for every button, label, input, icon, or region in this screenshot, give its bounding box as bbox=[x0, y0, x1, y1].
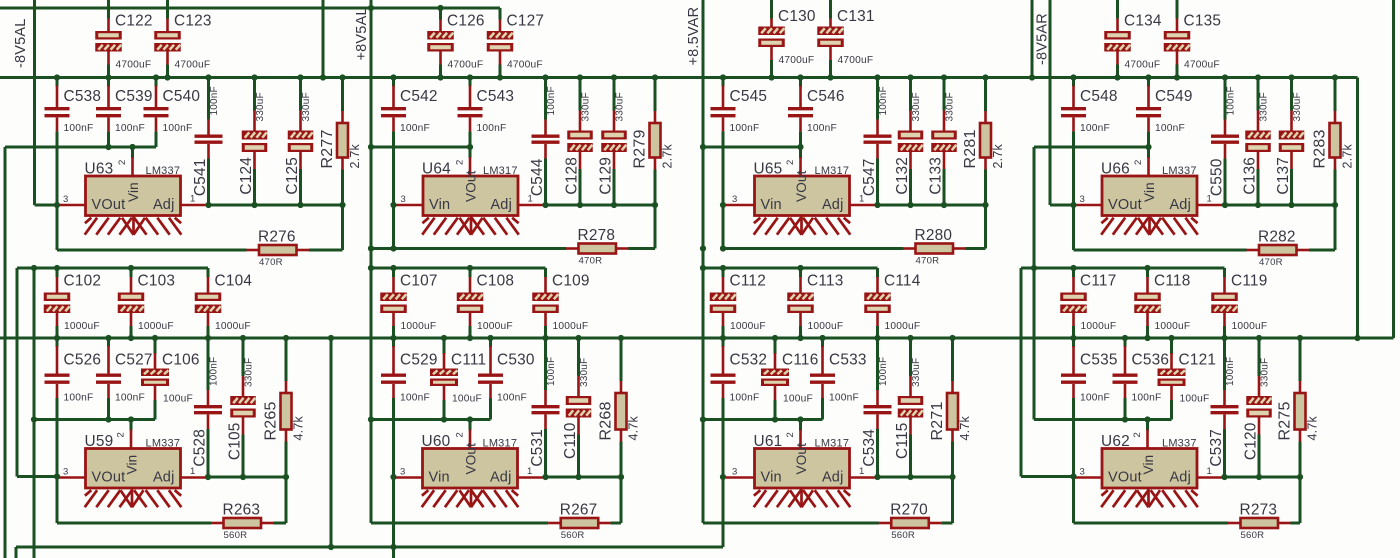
svg-text:C538: C538 bbox=[64, 88, 102, 105]
capacitor C541 bbox=[207, 79, 210, 120]
junction at (34,268) bbox=[31, 265, 37, 271]
svg-text:C120: C120 bbox=[1243, 423, 1260, 461]
svg-text:R282: R282 bbox=[1258, 229, 1296, 246]
svg-text:1: 1 bbox=[528, 194, 533, 205]
svg-text:100nF: 100nF bbox=[400, 393, 430, 404]
R270 right wire bbox=[941, 522, 952, 525]
mid rail (block2 bottom) bbox=[371, 267, 546, 270]
svg-text:100uF: 100uF bbox=[783, 394, 813, 405]
svg-text:U66: U66 bbox=[1101, 161, 1130, 178]
svg-text:3: 3 bbox=[63, 194, 68, 205]
junction at (1032,77.5) bbox=[1029, 74, 1035, 80]
VOut feed left column (block4) bbox=[1020, 268, 1023, 477]
svg-text:C540: C540 bbox=[163, 88, 201, 105]
pin 2 wire (U65) bbox=[799, 147, 802, 158]
svg-text:4.7k: 4.7k bbox=[1306, 416, 1320, 441]
ground symbol under U60 bbox=[422, 490, 428, 496]
resistor R278 bbox=[566, 247, 579, 250]
junction at (444,338) bbox=[441, 335, 447, 341]
svg-text:C132: C132 bbox=[894, 157, 911, 195]
junction at (910.5,477) bbox=[907, 474, 913, 480]
R267 riser to Adj bbox=[620, 477, 623, 523]
junction at (545.5,77.5) bbox=[542, 74, 548, 80]
junction at (775,419.5) bbox=[772, 416, 778, 422]
svg-text:U59: U59 bbox=[85, 433, 114, 450]
capacitor C108 bbox=[469, 268, 472, 277]
junction at (985.5,205) bbox=[982, 202, 988, 208]
svg-text:VOut: VOut bbox=[92, 197, 126, 213]
ground symbol under U64 bbox=[422, 218, 428, 224]
svg-text:C113: C113 bbox=[807, 273, 843, 290]
svg-text:1: 1 bbox=[859, 194, 864, 205]
junction at (371,248.5) bbox=[368, 245, 374, 251]
svg-text:C527: C527 bbox=[115, 352, 153, 369]
svg-text:C535: C535 bbox=[1080, 352, 1118, 369]
junction at (1073.5,205) bbox=[1070, 202, 1076, 208]
svg-text:C130: C130 bbox=[778, 8, 816, 25]
junction at (131,268) bbox=[128, 265, 134, 271]
junction at (342.5,205) bbox=[339, 202, 345, 208]
svg-text:4700uF: 4700uF bbox=[838, 55, 874, 66]
right edge vertical bbox=[1392, 0, 1395, 338]
svg-text:C104: C104 bbox=[215, 273, 253, 290]
svg-text:4700uF: 4700uF bbox=[1125, 60, 1161, 71]
svg-text:2: 2 bbox=[116, 432, 127, 437]
svg-text:3: 3 bbox=[63, 467, 68, 478]
capacitor C549 bbox=[1147, 79, 1150, 87]
svg-text:3: 3 bbox=[732, 467, 737, 478]
mid rail (block1 bottom) bbox=[17, 267, 208, 270]
GND bus link (left) bbox=[330, 338, 333, 547]
svg-text:330uF: 330uF bbox=[301, 92, 312, 121]
svg-text:C550: C550 bbox=[1209, 159, 1226, 197]
svg-text:C549: C549 bbox=[1155, 88, 1193, 105]
junction at (723,248.5) bbox=[720, 245, 726, 251]
junction at (470,77.5) bbox=[467, 74, 473, 80]
Adj rail (block4 bottom) bbox=[1225, 476, 1301, 479]
svg-text:2.7k: 2.7k bbox=[348, 144, 362, 169]
svg-text:Adj: Adj bbox=[1169, 470, 1191, 486]
svg-text:-8V5AL: -8V5AL bbox=[13, 18, 29, 68]
svg-text:VOut: VOut bbox=[794, 443, 809, 475]
capacitor C545 bbox=[722, 79, 725, 87]
voltage regulator U63 LM337 bbox=[86, 176, 181, 216]
svg-text:U65: U65 bbox=[754, 161, 783, 178]
voltage regulator U62 LM337 bbox=[1102, 449, 1197, 489]
svg-text:100nF: 100nF bbox=[1226, 86, 1237, 115]
svg-text:C126: C126 bbox=[447, 13, 485, 30]
junction at (300.5,205) bbox=[297, 202, 303, 208]
junction at (771.5,77.5) bbox=[768, 74, 774, 80]
svg-text:100nF: 100nF bbox=[807, 123, 837, 134]
mid rail (block3 bottom) bbox=[703, 267, 878, 270]
svg-text:C122: C122 bbox=[115, 13, 153, 30]
capacitor C125 bbox=[299, 79, 302, 111]
svg-text:C129: C129 bbox=[598, 157, 615, 195]
junction at (1148.5,147) bbox=[1145, 144, 1151, 150]
svg-text:VOut: VOut bbox=[464, 443, 479, 475]
capacitor C527 bbox=[107, 339, 110, 347]
junction at (470,419.5) bbox=[467, 416, 473, 422]
resistor R271 bbox=[951, 339, 954, 381]
svg-text:560R: 560R bbox=[224, 530, 248, 541]
R267 left wire bbox=[371, 522, 548, 525]
capacitor C116 bbox=[774, 339, 777, 354]
svg-text:C109: C109 bbox=[552, 273, 590, 290]
capacitor C109 bbox=[544, 268, 547, 277]
junction at (342.5,77.5) bbox=[339, 74, 345, 80]
svg-text:C131: C131 bbox=[837, 8, 875, 25]
svg-text:470R: 470R bbox=[579, 256, 603, 267]
junction at (775,338) bbox=[772, 335, 778, 341]
wire C542 lower lead bbox=[392, 117, 395, 131]
VOut net vertical (block4) bbox=[1049, 0, 1052, 205]
capacitor C106 bbox=[154, 339, 157, 354]
junction at (470,147) bbox=[467, 144, 473, 150]
capacitor C543 bbox=[469, 79, 472, 87]
svg-text:U60: U60 bbox=[422, 433, 451, 450]
pin 2 wire (U63) bbox=[131, 147, 134, 158]
+8V5AL rail (block2) bbox=[370, 0, 373, 523]
wire C526 lower lead bbox=[56, 384, 59, 398]
svg-text:C121: C121 bbox=[1179, 352, 1217, 369]
svg-text:C114: C114 bbox=[884, 273, 921, 290]
Adj rail (block3 bottom) bbox=[878, 476, 953, 479]
VOut feed elbow bbox=[17, 475, 57, 478]
junction at (1125,338) bbox=[1122, 335, 1128, 341]
svg-text:100nF: 100nF bbox=[1080, 123, 1110, 134]
junction at (910.5,77.5) bbox=[907, 74, 913, 80]
junction at (1147.5,338) bbox=[1144, 335, 1150, 341]
junction at (1073.5,338) bbox=[1070, 335, 1076, 341]
junction at (393.5,477) bbox=[390, 474, 396, 480]
svg-text:VOut: VOut bbox=[464, 170, 479, 202]
svg-text:470R: 470R bbox=[259, 257, 283, 268]
svg-text:100nF: 100nF bbox=[115, 123, 145, 134]
svg-text:Vin: Vin bbox=[125, 455, 140, 475]
svg-text:100uF: 100uF bbox=[163, 394, 193, 405]
junction at (1259,477) bbox=[1256, 474, 1262, 480]
svg-text:C530: C530 bbox=[497, 352, 535, 369]
svg-text:2: 2 bbox=[117, 160, 128, 165]
capacitor C546 bbox=[799, 79, 802, 87]
svg-text:Adj: Adj bbox=[822, 197, 844, 213]
svg-text:4700uF: 4700uF bbox=[116, 60, 152, 71]
junction at (545.5,338) bbox=[542, 335, 548, 341]
R280 riser to Adj bbox=[984, 205, 987, 249]
svg-text:1000uF: 1000uF bbox=[215, 321, 251, 332]
junction at (331,547) bbox=[328, 544, 334, 550]
junction at (1259,338) bbox=[1256, 335, 1262, 341]
svg-text:100nF: 100nF bbox=[1080, 393, 1110, 404]
raw feed column (block4 bottom) bbox=[1033, 268, 1036, 420]
junction at (500,77.5) bbox=[497, 74, 503, 80]
svg-text:C125: C125 bbox=[284, 157, 301, 195]
junction at (1117.5,77.5) bbox=[1114, 74, 1120, 80]
svg-text:R283: R283 bbox=[1312, 129, 1329, 168]
svg-text:330uF: 330uF bbox=[255, 92, 266, 121]
svg-text:470R: 470R bbox=[1259, 257, 1283, 268]
svg-text:100nF: 100nF bbox=[1155, 123, 1185, 134]
junction at (34,419.5) bbox=[31, 416, 37, 422]
junction at (208,477) bbox=[205, 474, 211, 480]
resistor R280 bbox=[903, 247, 916, 250]
junction at (1147.5,419.5) bbox=[1144, 416, 1150, 422]
pin 2 wire (U66) bbox=[1147, 147, 1150, 158]
junction at (877.5,205) bbox=[874, 202, 880, 208]
capacitor C126 bbox=[439, 8, 442, 20]
capacitor C128 bbox=[579, 79, 582, 111]
junction at (108.5,419.5) bbox=[105, 416, 111, 422]
svg-text:330uF: 330uF bbox=[615, 92, 626, 121]
junction at (393.5,248.5) bbox=[390, 245, 396, 251]
resistor R265 bbox=[285, 339, 288, 381]
VOut line (block3 bottom) bbox=[703, 418, 823, 421]
svg-text:2: 2 bbox=[785, 160, 796, 165]
capacitor C540 bbox=[155, 79, 158, 87]
svg-text:100nF: 100nF bbox=[400, 123, 430, 134]
svg-text:C544: C544 bbox=[529, 158, 546, 196]
svg-text:C110: C110 bbox=[562, 423, 579, 459]
top +8V5AL feeder wire bbox=[0, 7, 500, 10]
bus1 to bus2 link (right) bbox=[1356, 78, 1359, 339]
bottom bus left drop bbox=[15, 547, 18, 558]
junction at (371,268) bbox=[368, 265, 374, 271]
svg-text:1: 1 bbox=[859, 466, 864, 477]
svg-text:100nF: 100nF bbox=[730, 123, 760, 134]
capacitor C535 bbox=[1072, 339, 1075, 347]
capacitor C538 bbox=[56, 79, 59, 87]
svg-text:C127: C127 bbox=[507, 13, 545, 30]
junction at (371,147) bbox=[368, 144, 374, 150]
capacitor C134 bbox=[1116, 0, 1119, 19]
R280 right wire bbox=[965, 247, 985, 250]
wire C529 lower lead bbox=[392, 384, 395, 398]
ground symbol under U62 bbox=[1101, 490, 1107, 496]
voltage regulator U64 LM317 bbox=[423, 176, 518, 216]
svg-text:LM337: LM337 bbox=[146, 165, 181, 177]
capacitor C132 bbox=[909, 79, 912, 111]
svg-text:Vin: Vin bbox=[1141, 455, 1156, 475]
resistor R268 bbox=[620, 339, 623, 381]
svg-text:4700uF: 4700uF bbox=[175, 60, 211, 71]
junction at (108.5,147) bbox=[105, 144, 111, 150]
svg-text:C547: C547 bbox=[861, 159, 878, 197]
capacitor C533 bbox=[821, 339, 824, 347]
svg-text:1: 1 bbox=[1207, 466, 1212, 477]
R276 left wire bbox=[57, 249, 247, 252]
svg-text:Adj: Adj bbox=[490, 470, 512, 486]
svg-text:LM337: LM337 bbox=[1162, 165, 1197, 177]
svg-text:C545: C545 bbox=[730, 88, 768, 105]
junction at (1073.5,476.5) bbox=[1070, 473, 1076, 479]
svg-text:C118: C118 bbox=[1154, 273, 1190, 290]
junction at (57,205) bbox=[54, 202, 60, 208]
capacitor C122 bbox=[107, 0, 110, 19]
C545 column to R280 row bbox=[722, 205, 725, 249]
svg-text:4700uF: 4700uF bbox=[448, 60, 484, 71]
svg-text:1000uF: 1000uF bbox=[1081, 321, 1117, 332]
svg-text:4.7k: 4.7k bbox=[627, 416, 641, 441]
svg-text:100nF: 100nF bbox=[497, 393, 527, 404]
svg-text:100nF: 100nF bbox=[163, 123, 193, 134]
capacitor C105 bbox=[242, 339, 245, 376]
resistor R273 bbox=[1228, 522, 1241, 525]
svg-text:2.7k: 2.7k bbox=[991, 144, 1005, 169]
junction at (545.5,477) bbox=[542, 474, 548, 480]
svg-text:C135: C135 bbox=[1184, 13, 1222, 30]
junction at (167.5,77.5) bbox=[164, 74, 170, 80]
svg-text:100uF: 100uF bbox=[1180, 394, 1210, 405]
voltage regulator U65 LM317 bbox=[755, 176, 850, 216]
svg-text:C111: C111 bbox=[451, 352, 486, 369]
junction at (300.5,77.5) bbox=[297, 74, 303, 80]
svg-text:560R: 560R bbox=[891, 530, 915, 541]
ground symbol under U61 bbox=[754, 490, 760, 496]
svg-text:2: 2 bbox=[785, 432, 796, 437]
junction at (108.5,338) bbox=[105, 335, 111, 341]
Vin line (block1 bottom) bbox=[34, 418, 155, 421]
svg-text:100nF: 100nF bbox=[546, 357, 557, 386]
resistor R267 bbox=[548, 522, 561, 525]
pin 2 wire (U62) bbox=[1146, 420, 1149, 431]
svg-text:R277: R277 bbox=[319, 129, 336, 168]
junction at (1225,205) bbox=[1222, 202, 1228, 208]
svg-text:1000uF: 1000uF bbox=[138, 321, 174, 332]
svg-text:4.7k: 4.7k bbox=[292, 416, 306, 441]
junction at (131,419.5) bbox=[128, 416, 134, 422]
junction at (952.5,338) bbox=[949, 335, 955, 341]
svg-text:R279: R279 bbox=[632, 129, 649, 168]
svg-text:C546: C546 bbox=[807, 88, 845, 105]
capacitor C129 bbox=[613, 79, 616, 111]
capacitor C110 bbox=[577, 339, 580, 376]
junction at (131,338) bbox=[128, 335, 134, 341]
junction at (910.5,338) bbox=[907, 335, 913, 341]
junction at (1291.5,77.5) bbox=[1288, 74, 1294, 80]
svg-text:4700uF: 4700uF bbox=[507, 60, 543, 71]
svg-text:U61: U61 bbox=[754, 433, 783, 450]
svg-text:C136: C136 bbox=[1242, 157, 1259, 195]
capacitor C135 bbox=[1176, 0, 1179, 19]
VOut drop to R263 bbox=[56, 477, 59, 524]
R267 right wire bbox=[611, 522, 621, 525]
svg-text:R281: R281 bbox=[962, 129, 979, 168]
junction at (877.5,338) bbox=[874, 335, 880, 341]
capacitor C544 bbox=[544, 79, 547, 120]
VOut feed elbow (block4) bbox=[1021, 475, 1074, 478]
pin 2 wire (U60) bbox=[469, 420, 472, 431]
junction at (286,338) bbox=[283, 335, 289, 341]
wire C533 lower lead bbox=[821, 384, 824, 398]
svg-text:C102: C102 bbox=[64, 273, 102, 290]
svg-text:1000uF: 1000uF bbox=[730, 321, 766, 332]
R280 left wire bbox=[723, 247, 903, 250]
Vin line (block1) bbox=[5, 146, 156, 149]
svg-text:R267: R267 bbox=[560, 502, 598, 519]
svg-text:100nF: 100nF bbox=[64, 123, 94, 134]
svg-text:+8V5AL: +8V5AL bbox=[354, 7, 370, 60]
VOut elbow to pin 3 (block4) bbox=[1050, 204, 1074, 207]
svg-text:C119: C119 bbox=[1231, 273, 1267, 290]
svg-text:330uF: 330uF bbox=[1259, 92, 1270, 121]
svg-text:C108: C108 bbox=[477, 273, 515, 290]
R278 left wire bbox=[371, 247, 566, 250]
junction at (723,338) bbox=[720, 335, 726, 341]
svg-text:R280: R280 bbox=[915, 227, 953, 244]
junction at (822.5,338) bbox=[819, 335, 825, 341]
resistor R279 bbox=[654, 79, 657, 112]
ground symbol under U59 bbox=[85, 490, 91, 496]
voltage regulator U60 LM317 bbox=[423, 449, 518, 489]
svg-text:3: 3 bbox=[1080, 194, 1085, 205]
svg-text:R270: R270 bbox=[890, 502, 928, 519]
junction at (723,477) bbox=[720, 474, 726, 480]
svg-text:C115: C115 bbox=[894, 423, 911, 459]
svg-text:C532: C532 bbox=[730, 352, 768, 369]
VOut net vertical (block1) bbox=[33, 0, 36, 205]
junction at (132.5,147) bbox=[129, 144, 135, 150]
wire C546 lower lead bbox=[799, 117, 802, 131]
junction at (393.5,547) bbox=[390, 544, 396, 550]
R270 riser to Adj bbox=[951, 477, 954, 523]
svg-text:100nF: 100nF bbox=[878, 86, 889, 115]
svg-text:C112: C112 bbox=[730, 273, 766, 290]
capacitor C528 bbox=[207, 339, 210, 390]
wire C545 lower lead bbox=[722, 117, 725, 131]
junction at (580,77.5) bbox=[577, 74, 583, 80]
svg-text:C533: C533 bbox=[829, 352, 867, 369]
wire C549 lower lead bbox=[1147, 117, 1150, 131]
svg-text:C537: C537 bbox=[1208, 429, 1225, 467]
svg-text:560R: 560R bbox=[561, 530, 585, 541]
C542 column to R278 row bbox=[392, 205, 395, 249]
svg-text:100uF: 100uF bbox=[452, 394, 482, 405]
junction at (371,8) bbox=[368, 5, 374, 11]
svg-text:330uF: 330uF bbox=[911, 358, 922, 387]
junction at (614,205) bbox=[611, 202, 617, 208]
junction at (1148.5,77.5) bbox=[1145, 74, 1151, 80]
junction at (208,338) bbox=[205, 335, 211, 341]
mid rail (block4 bottom) bbox=[1021, 267, 1225, 270]
wire C530 lower lead bbox=[489, 384, 492, 398]
svg-text:Vin: Vin bbox=[429, 470, 450, 486]
junction at (580,205) bbox=[577, 202, 583, 208]
svg-text:C134: C134 bbox=[1124, 13, 1162, 30]
svg-text:1: 1 bbox=[527, 466, 532, 477]
capacitor C103 bbox=[130, 268, 133, 277]
svg-text:Adj: Adj bbox=[153, 470, 175, 486]
junction at (578.5,477) bbox=[575, 474, 581, 480]
capacitor C536 bbox=[1124, 339, 1127, 347]
junction at (800.5,268) bbox=[797, 265, 803, 271]
wire C536 lower lead bbox=[1124, 384, 1127, 398]
junction at (1073.5,268) bbox=[1070, 265, 1076, 271]
wire C540 lower lead bbox=[155, 117, 158, 131]
svg-text:Adj: Adj bbox=[490, 197, 512, 213]
Adj rail (block1 bottom) bbox=[208, 476, 286, 479]
capacitor C121 bbox=[1170, 339, 1173, 354]
net stub -8V5AR into GND bus bbox=[1031, 0, 1034, 78]
svg-text:1000uF: 1000uF bbox=[477, 321, 513, 332]
svg-text:C536: C536 bbox=[1132, 352, 1170, 369]
R278 right wire bbox=[628, 247, 655, 250]
junction at (1125,419.5) bbox=[1122, 416, 1128, 422]
net stub +8V5AL into GND bus bbox=[322, 0, 325, 78]
junction at (944,77.5) bbox=[941, 74, 947, 80]
junction at (621,338) bbox=[618, 335, 624, 341]
svg-text:2.7k: 2.7k bbox=[661, 144, 675, 169]
